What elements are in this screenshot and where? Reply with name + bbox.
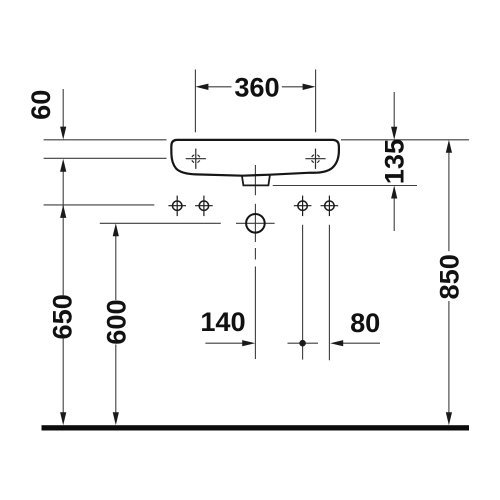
svg-text:850: 850 xyxy=(434,254,465,299)
svg-text:60: 60 xyxy=(25,90,56,120)
svg-text:135: 135 xyxy=(379,139,410,184)
svg-text:600: 600 xyxy=(101,299,132,344)
svg-text:360: 360 xyxy=(234,72,279,103)
svg-text:140: 140 xyxy=(200,306,245,337)
svg-text:650: 650 xyxy=(46,294,77,339)
svg-text:80: 80 xyxy=(350,307,380,338)
